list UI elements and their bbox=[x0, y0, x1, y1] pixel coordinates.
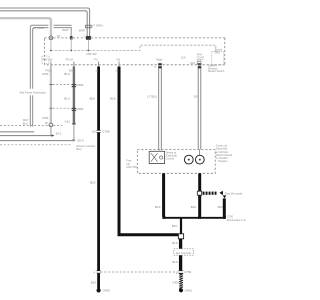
svg-text:10A: 10A bbox=[190, 61, 195, 65]
svg-text:50-5: 50-5 bbox=[78, 139, 84, 143]
svg-text:Two Grounds: Two Grounds bbox=[225, 192, 243, 196]
svg-text:CMP SW: CMP SW bbox=[86, 52, 97, 56]
svg-text:BLK: BLK bbox=[172, 241, 178, 245]
svg-text:Control: Control bbox=[166, 157, 175, 161]
svg-text:PNK: PNK bbox=[43, 72, 49, 76]
svg-text:BLU: BLU bbox=[64, 72, 70, 76]
svg-text:C581: C581 bbox=[76, 107, 84, 111]
svg-text:WHT: WHT bbox=[62, 28, 69, 32]
svg-text:P/W SW: P/W SW bbox=[43, 58, 53, 62]
svg-text:(A6): (A6) bbox=[215, 51, 220, 55]
svg-text:YEL: YEL bbox=[193, 95, 199, 99]
svg-text:BLU: BLU bbox=[64, 97, 70, 101]
svg-text:BLK: BLK bbox=[110, 97, 116, 101]
svg-text:LT BLU: LT BLU bbox=[147, 95, 157, 99]
svg-text:P/C M: P/C M bbox=[66, 58, 73, 62]
svg-text:A2: A2 bbox=[92, 130, 96, 134]
svg-text:Position: Position bbox=[218, 159, 228, 163]
svg-text:BLK: BLK bbox=[91, 280, 97, 284]
svg-text:LT GRN: LT GRN bbox=[92, 24, 103, 28]
svg-text:GRN: GRN bbox=[172, 280, 179, 284]
svg-text:C584: C584 bbox=[76, 83, 84, 87]
svg-text:See Grounds: See Grounds bbox=[176, 251, 192, 255]
svg-text:BLK: BLK bbox=[23, 121, 28, 125]
svg-text:BLK: BLK bbox=[155, 205, 161, 209]
svg-text:PNK: PNK bbox=[43, 116, 49, 120]
svg-text:BLK: BLK bbox=[172, 260, 178, 264]
svg-text:Mode: Mode bbox=[156, 58, 163, 62]
svg-text:10A: 10A bbox=[181, 56, 186, 60]
svg-text:GN: GN bbox=[116, 58, 120, 62]
svg-text:BLK: BLK bbox=[218, 205, 224, 209]
svg-text:BLK: BLK bbox=[90, 97, 96, 101]
svg-text:A12: A12 bbox=[65, 119, 71, 123]
svg-text:BLK: BLK bbox=[90, 180, 96, 184]
svg-text:BLK: BLK bbox=[172, 224, 178, 228]
svg-text:G401: G401 bbox=[185, 288, 193, 292]
svg-text:G400: G400 bbox=[103, 288, 111, 292]
svg-text:10-1: 10-1 bbox=[56, 132, 62, 136]
svg-text:CRK SW: CRK SW bbox=[126, 165, 137, 169]
svg-text:Rev.): Rev.) bbox=[76, 147, 82, 151]
svg-text:FU: FU bbox=[94, 58, 98, 62]
svg-text:Master Switch: Master Switch bbox=[208, 69, 225, 73]
svg-text:C758: C758 bbox=[102, 130, 110, 134]
svg-text:Wre Power Distribution: Wre Power Distribution bbox=[20, 91, 47, 95]
svg-text:LT GRN: LT GRN bbox=[33, 26, 44, 30]
svg-text:WHT: WHT bbox=[79, 29, 86, 33]
svg-text:BLK: BLK bbox=[191, 205, 197, 209]
svg-text:(Redundant 1-4): (Redundant 1-4) bbox=[227, 218, 246, 222]
svg-text:C750: C750 bbox=[184, 270, 192, 274]
svg-text:A8: A8 bbox=[45, 121, 49, 125]
